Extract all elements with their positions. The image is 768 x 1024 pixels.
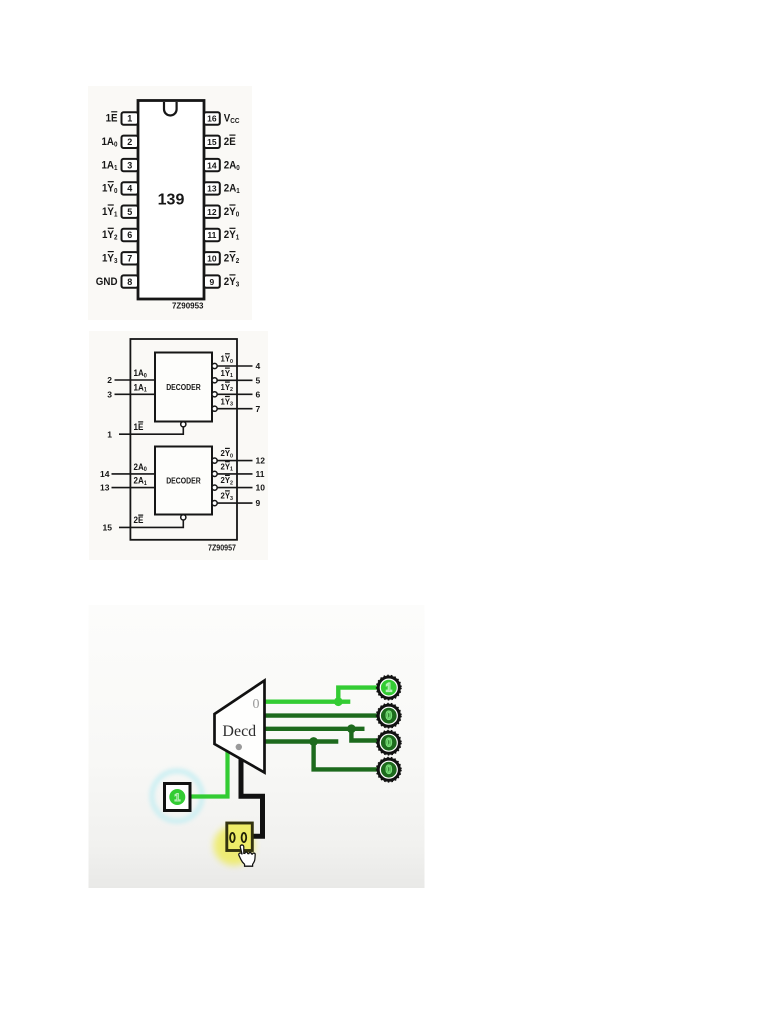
- svg-text:2A: 2A: [134, 462, 145, 472]
- wire output 1Y2 (pin 6): [217, 393, 252, 395]
- svg-text:2: 2: [236, 258, 240, 265]
- svg-text:2E: 2E: [224, 136, 236, 148]
- svg-text:3: 3: [127, 160, 132, 170]
- wire output 2Y1 (pin 11): [217, 473, 252, 475]
- svg-text:1Y: 1Y: [102, 229, 114, 241]
- wire output 2Y3 (pin 9): [217, 502, 252, 504]
- svg-text:1Y: 1Y: [221, 396, 231, 406]
- wire output 1Y0 (pin 4): [217, 365, 252, 367]
- pin 4 box: [122, 182, 139, 194]
- svg-text:GND: GND: [96, 276, 118, 288]
- scanned figure 1 background: [88, 86, 252, 320]
- pin 15 box: [204, 136, 220, 148]
- output indicator Y1 (value 0): [377, 704, 401, 728]
- svg-text:1E: 1E: [134, 422, 144, 432]
- svg-text:2: 2: [107, 375, 112, 385]
- pin 2 box: [122, 136, 139, 148]
- pin 11 box: [204, 229, 220, 241]
- svg-text:2Y: 2Y: [221, 475, 231, 485]
- wire output Y1 (dark green, logic 0): [262, 713, 377, 717]
- pin 14 box: [204, 159, 220, 171]
- pin 12 box: [204, 206, 220, 218]
- svg-text:1Y: 1Y: [221, 354, 231, 364]
- inversion bubble 1Y3: [212, 406, 217, 411]
- svg-text:1E: 1E: [106, 113, 118, 125]
- svg-text:2A: 2A: [134, 476, 145, 486]
- svg-text:3: 3: [107, 389, 112, 399]
- svg-text:2: 2: [127, 137, 132, 147]
- pin 1 box: [122, 112, 139, 124]
- inversion bubble 2Y3: [212, 501, 217, 506]
- svg-text:15: 15: [207, 137, 217, 147]
- svg-text:12: 12: [207, 207, 217, 217]
- yellow glow around switch box: [214, 826, 255, 866]
- svg-text:1: 1: [127, 114, 132, 124]
- svg-text:13: 13: [100, 483, 110, 493]
- pin-1 index notch: [164, 102, 177, 115]
- svg-text:7Z90953: 7Z90953: [172, 301, 204, 311]
- svg-text:9: 9: [256, 498, 261, 508]
- svg-text:13: 13: [207, 184, 217, 194]
- wire output 2Y2 (pin 10): [217, 487, 252, 489]
- wire input A (bright green from input box): [190, 751, 228, 797]
- svg-text:0: 0: [386, 711, 392, 723]
- wire select (black from switch box): [241, 753, 263, 836]
- svg-text:2E: 2E: [134, 515, 144, 525]
- inversion bubble 2Y2: [212, 485, 217, 490]
- svg-text:0: 0: [386, 738, 392, 750]
- pin 6 box: [122, 229, 139, 241]
- decoder symbol Decd: [215, 681, 265, 773]
- svg-text:1: 1: [174, 792, 180, 804]
- svg-text:14: 14: [100, 469, 110, 479]
- pin 10 box: [204, 252, 220, 264]
- junction dot Y3: [309, 737, 318, 746]
- svg-text:1: 1: [386, 683, 393, 695]
- wire input 2A0 (pin 14): [112, 473, 156, 475]
- svg-text:2: 2: [230, 480, 233, 486]
- inversion bubble 1E: [181, 422, 186, 427]
- svg-text:1Y: 1Y: [102, 206, 114, 218]
- inversion bubble 1Y1: [212, 378, 217, 383]
- svg-text:10: 10: [207, 254, 217, 264]
- svg-text:1: 1: [107, 429, 112, 439]
- wire output Y2 (dark green, logic 0): [262, 729, 377, 741]
- svg-text:4: 4: [127, 184, 132, 194]
- svg-text:8: 8: [127, 277, 132, 287]
- svg-text:0: 0: [236, 165, 240, 172]
- svg-text:1: 1: [114, 165, 118, 172]
- svg-text:1A: 1A: [134, 368, 145, 378]
- svg-text:1A: 1A: [134, 382, 145, 392]
- svg-text:1: 1: [236, 235, 240, 242]
- pin 16 box: [204, 112, 220, 124]
- wire output Y3 (dark green, logic 0): [262, 742, 377, 770]
- svg-text:CC: CC: [230, 118, 239, 125]
- svg-text:14: 14: [207, 160, 217, 170]
- input box A (value 1): [165, 784, 191, 811]
- svg-text:0: 0: [114, 188, 118, 195]
- svg-text:5: 5: [127, 207, 132, 217]
- pin 5 box: [122, 206, 139, 218]
- wire input 1A1 (pin 3): [115, 393, 156, 395]
- output indicator Y0 (value 1): [377, 675, 401, 699]
- svg-text:3: 3: [114, 258, 118, 265]
- svg-text:2Y: 2Y: [221, 448, 231, 458]
- svg-text:1A: 1A: [102, 159, 115, 171]
- outer boundary box: [130, 339, 237, 540]
- svg-text:1: 1: [114, 211, 118, 218]
- simulator screenshot background: [89, 605, 425, 888]
- svg-text:12: 12: [256, 456, 266, 466]
- mouse cursor (hand): [239, 845, 255, 866]
- svg-text:Decd: Decd: [222, 723, 256, 740]
- svg-text:7: 7: [256, 404, 261, 414]
- cyan glow around input box: [152, 771, 202, 821]
- decoder block 1: [155, 353, 212, 422]
- wire output 1Y1 (pin 5): [217, 379, 252, 381]
- svg-text:139: 139: [158, 192, 185, 209]
- switch box (value 0 0): [227, 823, 253, 851]
- output indicator Y2 (value 0): [377, 731, 401, 755]
- svg-text:2: 2: [114, 235, 118, 242]
- wire output 1Y3 (pin 7): [217, 408, 252, 410]
- svg-text:2Y: 2Y: [221, 491, 231, 501]
- svg-text:2Y: 2Y: [224, 253, 236, 265]
- svg-text:DECODER: DECODER: [166, 383, 201, 392]
- inversion bubble 1Y2: [212, 392, 217, 397]
- svg-text:2Y: 2Y: [221, 462, 231, 472]
- IC package U1 (139) DIP-16 body: [138, 101, 204, 300]
- svg-text:2Y: 2Y: [224, 276, 236, 288]
- pin 8 box: [122, 275, 139, 287]
- svg-text:0: 0: [230, 453, 233, 459]
- pin 9 box: [204, 275, 220, 287]
- svg-text:6: 6: [127, 230, 132, 240]
- svg-text:0: 0: [253, 697, 260, 712]
- svg-text:1A: 1A: [102, 136, 115, 148]
- svg-text:2: 2: [230, 387, 233, 393]
- svg-text:6: 6: [256, 389, 261, 399]
- svg-text:16: 16: [207, 114, 217, 124]
- svg-text:7Z90957: 7Z90957: [208, 544, 236, 553]
- wire output Y0 (bright green, logic 1): [262, 688, 377, 704]
- svg-text:3: 3: [236, 281, 240, 288]
- svg-text:11: 11: [256, 469, 265, 479]
- svg-text:5: 5: [256, 375, 261, 385]
- svg-text:1Y: 1Y: [221, 382, 231, 392]
- pin 3 box: [122, 159, 139, 171]
- svg-text:2Y: 2Y: [224, 229, 236, 241]
- wire enable 2E (pin 15): [119, 520, 183, 527]
- svg-text:4: 4: [256, 361, 261, 371]
- pin 13 box: [204, 182, 220, 194]
- svg-text:10: 10: [256, 483, 266, 493]
- inversion bubble 2E: [181, 515, 186, 520]
- svg-text:1Y: 1Y: [102, 253, 114, 265]
- inversion bubble 2Y1: [212, 471, 217, 476]
- svg-text:2A: 2A: [224, 183, 237, 195]
- wire input 1A0 (pin 2): [115, 379, 156, 381]
- svg-text:9: 9: [210, 277, 215, 287]
- svg-text:2Y: 2Y: [224, 206, 236, 218]
- svg-text:0: 0: [114, 142, 118, 149]
- svg-text:1: 1: [236, 188, 240, 195]
- scanned figure 2 background: [89, 331, 268, 560]
- svg-text:0: 0: [230, 359, 233, 365]
- svg-text:1Y: 1Y: [221, 368, 231, 378]
- decoder enable dot: [236, 744, 242, 750]
- wire input 2A1 (pin 13): [112, 487, 156, 489]
- inversion bubble 2Y0: [212, 458, 217, 463]
- inversion bubble 1Y0: [212, 363, 217, 368]
- svg-text:0: 0: [386, 765, 392, 777]
- svg-text:DECODER: DECODER: [166, 477, 201, 486]
- svg-text:0: 0: [236, 211, 240, 218]
- svg-text:11: 11: [207, 230, 216, 240]
- svg-text:15: 15: [103, 523, 113, 533]
- wire output 2Y0 (pin 12): [217, 460, 252, 462]
- decoder block 2: [155, 447, 212, 515]
- junction dot Y2: [347, 724, 356, 733]
- pin 7 box: [122, 252, 139, 264]
- wire enable 1E (pin 1): [119, 427, 183, 434]
- junction dot Y0: [334, 697, 343, 706]
- svg-text:1Y: 1Y: [102, 183, 114, 195]
- svg-text:7: 7: [127, 254, 132, 264]
- svg-text:2A: 2A: [224, 159, 237, 171]
- output indicator Y3 (value 0): [377, 758, 401, 782]
